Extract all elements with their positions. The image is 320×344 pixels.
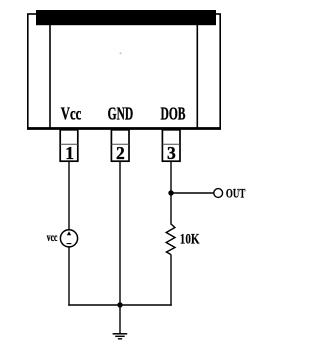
- package left tab line: [49, 14, 51, 128]
- pin 3 box divider: [162, 143, 180, 145]
- vcc source plus mark: [67, 231, 71, 235]
- ground symbol bar 3: [118, 338, 122, 340]
- svg-text:GND: GND: [108, 104, 134, 124]
- ground symbol bar 2: [115, 335, 125, 337]
- wire pin2 to ground node: [119, 161, 121, 305]
- wire resistor to bottom bus: [170, 255, 172, 306]
- sensor package U1 body outline: [28, 14, 220, 128]
- pin 1 box divider: [60, 143, 78, 145]
- sensor package bottom edge (thick): [27, 127, 221, 130]
- pin 3 box: [162, 130, 180, 161]
- pin 2 box: [111, 130, 129, 161]
- vcc source V1 circle: [60, 230, 77, 247]
- faint speckle dot: [120, 52, 122, 54]
- svg-text:2: 2: [116, 143, 125, 163]
- OUT terminal circle: [214, 189, 223, 198]
- package right tab line: [196, 14, 198, 128]
- resistor R1 zigzag: [166, 224, 175, 255]
- wire node A to OUT terminal: [171, 192, 214, 194]
- wire pin3 to node A: [170, 161, 172, 224]
- svg-text:OUT: OUT: [226, 186, 246, 200]
- node A junction dot: [168, 190, 173, 195]
- vcc source minus mark: [67, 243, 72, 245]
- pin 1 box: [60, 130, 78, 161]
- svg-text:3: 3: [167, 143, 176, 163]
- junction dot ground node: [117, 302, 122, 307]
- svg-text:DOB: DOB: [161, 104, 186, 124]
- pin 2 box divider: [111, 143, 129, 145]
- wire vcc source to bottom bus: [68, 247, 70, 306]
- wire pin1 to vcc source: [68, 161, 70, 230]
- bottom bus wire: [68, 304, 171, 306]
- ground symbol bar 1: [113, 333, 128, 335]
- svg-text:Vcc: Vcc: [61, 104, 82, 124]
- svg-text:1: 1: [65, 143, 74, 163]
- svg-text:vcc: vcc: [47, 230, 58, 244]
- svg-text:10K: 10K: [180, 231, 200, 247]
- ground stem wire: [119, 305, 121, 334]
- sensor package black face bar: [36, 10, 216, 25]
